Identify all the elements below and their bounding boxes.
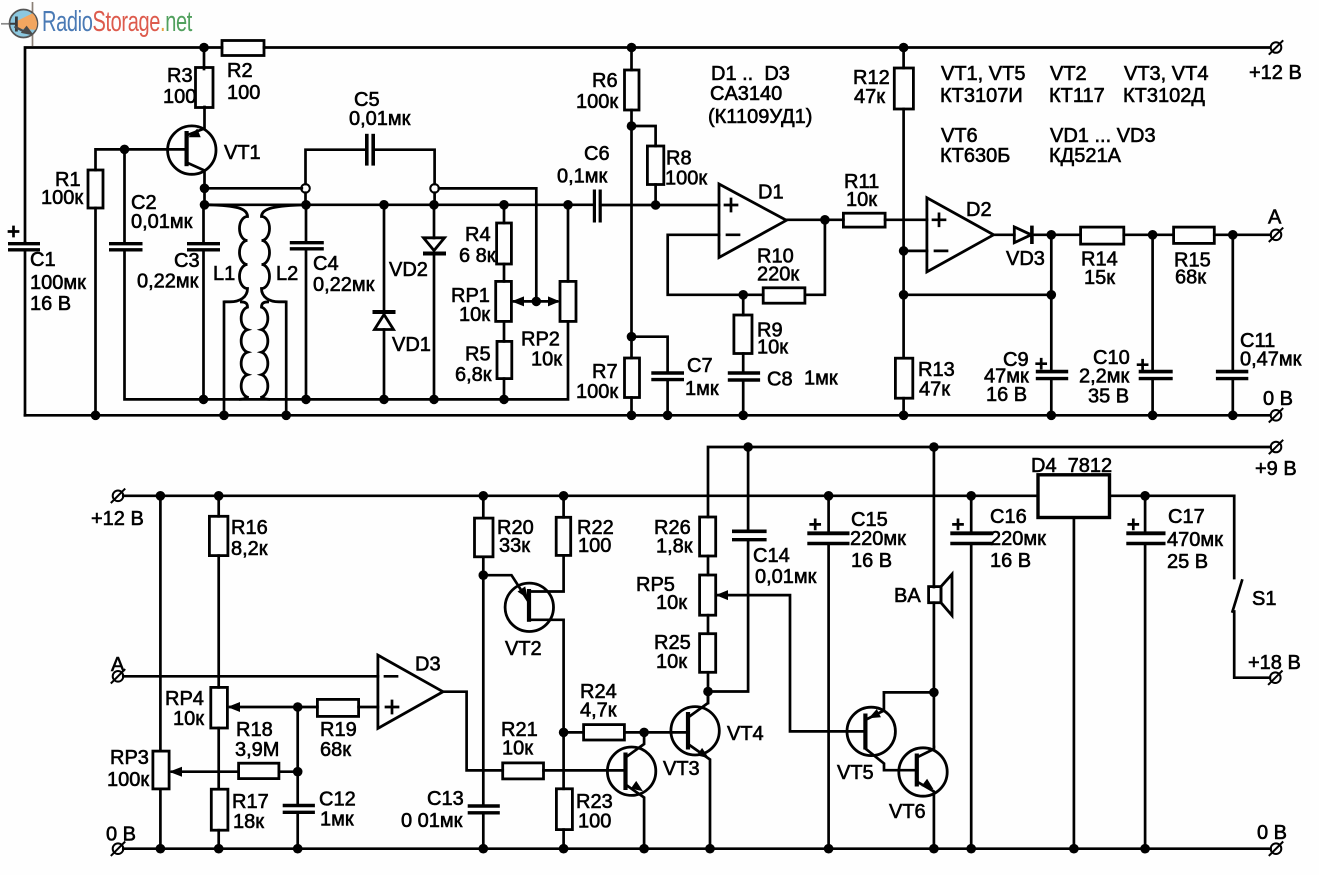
- svg-text:R17: R17: [232, 791, 269, 813]
- terminal A bottom left: [111, 669, 125, 683]
- svg-text:R2: R2: [227, 60, 253, 82]
- wire D2 feedback: [1050, 235, 1053, 295]
- svg-text:100к: 100к: [107, 769, 149, 791]
- wire VT6 collector: [933, 692, 936, 747]
- svg-text:25 В: 25 В: [1167, 551, 1208, 573]
- svg-text:0,01мк: 0,01мк: [131, 211, 193, 233]
- inductor L1 upper winding: [209, 205, 248, 302]
- resistor R24: [564, 731, 584, 734]
- svg-text:0,47мк: 0,47мк: [1240, 349, 1302, 371]
- resistor R25: [707, 615, 710, 634]
- svg-text:6 8к: 6 8к: [459, 245, 496, 267]
- svg-text:D4 7812: D4 7812: [1031, 455, 1112, 477]
- wire D4 ground: [1073, 518, 1076, 849]
- svg-text:C12: C12: [319, 789, 356, 811]
- svg-text:100к: 100к: [576, 91, 618, 113]
- resistor R23: [556, 789, 572, 830]
- wire A line: [123, 675, 378, 678]
- wiper RP3 from R18: [172, 770, 239, 773]
- resistor R8: [632, 126, 656, 146]
- wire RP4 to R17: [217, 728, 220, 789]
- svg-text:R8: R8: [666, 148, 692, 170]
- capacitor C16: [966, 491, 976, 501]
- svg-text:+12 В: +12 В: [1249, 62, 1302, 84]
- terminal +18 V: [1268, 671, 1282, 685]
- wire C1 bottom to rail: [24, 250, 27, 415]
- terminal +9 V: [1269, 440, 1283, 454]
- node R8 branch: [627, 121, 637, 131]
- wire ring right to RP1 wiper: [439, 188, 536, 301]
- svg-text:C3: C3: [174, 250, 200, 272]
- wire D1 output: [786, 218, 843, 221]
- resistor R15: [1174, 227, 1215, 243]
- wire R6 to R7 column: [630, 110, 633, 358]
- node D2 inverting: [899, 246, 909, 256]
- svg-text:L1: L1: [213, 263, 235, 285]
- node R1 bottom rail: [91, 411, 101, 421]
- transistor VT1: [168, 126, 216, 174]
- terminal +12 V bottom left: [111, 489, 125, 503]
- svg-text:C7: C7: [687, 355, 713, 377]
- wire b1 column to R23: [562, 732, 565, 788]
- speaker BA: [929, 442, 939, 452]
- wire R3 bottom to VT1 emitter: [188, 107, 205, 135]
- wire R10 to D1 output: [805, 220, 825, 295]
- svg-text:R4: R4: [465, 224, 491, 246]
- svg-text:16 В: 16 В: [851, 550, 892, 572]
- svg-text:(К1109УД1): (К1109УД1): [708, 106, 812, 128]
- terminal +12 V top right: [1269, 40, 1283, 54]
- svg-text:1мк: 1мк: [685, 378, 719, 400]
- svg-text:4,7к: 4,7к: [580, 700, 617, 722]
- node base/C2 junction: [120, 145, 130, 155]
- svg-text:220мк: 220мк: [990, 528, 1046, 550]
- svg-text:VT6: VT6: [889, 801, 926, 823]
- wire VT1 base line: [96, 149, 187, 170]
- capacitor C4: [305, 205, 308, 241]
- svg-text:35 В: 35 В: [1088, 386, 1129, 408]
- regulator D4 7812: [1038, 475, 1110, 518]
- logo RadioStorage.net: [1, 2, 192, 46]
- node R3/R2 junction: [199, 43, 209, 53]
- svg-text:0 В: 0 В: [1263, 388, 1293, 410]
- svg-text:VT3: VT3: [663, 758, 700, 780]
- svg-text:0 В: 0 В: [1257, 822, 1287, 844]
- svg-text:R7: R7: [592, 361, 618, 383]
- svg-text:КТ117: КТ117: [1049, 85, 1105, 107]
- svg-text:BA: BA: [894, 585, 921, 607]
- node emitter: [200, 184, 210, 194]
- terminal 0 V bottom right: [1269, 842, 1283, 856]
- svg-text:A: A: [111, 654, 125, 676]
- wire D4 output: [1110, 494, 1235, 497]
- svg-text:0,01мк: 0,01мк: [755, 566, 817, 588]
- svg-text:0,1мк: 0,1мк: [557, 166, 608, 188]
- svg-text:2,2мк: 2,2мк: [1079, 366, 1130, 388]
- node C3 top / bottom: [199, 395, 209, 405]
- wire D2 inverting input: [904, 250, 927, 253]
- svg-text:КТ3107И: КТ3107И: [940, 85, 1023, 107]
- svg-text:R5: R5: [465, 344, 491, 366]
- wire R11 to D2: [885, 218, 927, 221]
- op-amp D2: [927, 198, 994, 272]
- svg-text:+12 В: +12 В: [91, 508, 144, 530]
- wire L2 box right: [285, 302, 288, 415]
- resistor R22: [559, 491, 569, 501]
- resistor R5: [503, 321, 506, 341]
- svg-text:D1: D1: [758, 182, 784, 204]
- wire +12V top rail right: [264, 46, 1270, 49]
- svg-text:КД521А: КД521А: [1049, 145, 1122, 167]
- capacitor C15: [824, 491, 834, 501]
- svg-text:RP3: RP3: [110, 747, 149, 769]
- wire C2 bottom / inner bottom line: [125, 250, 569, 400]
- capacitor C1: [24, 241, 27, 244]
- resistor R19: [317, 699, 358, 716]
- svg-text:R18: R18: [236, 719, 273, 741]
- wire R3 top: [203, 48, 206, 70]
- capacitor C17: [1144, 496, 1147, 532]
- svg-text:100к: 100к: [665, 168, 707, 190]
- svg-text:R16: R16: [231, 517, 268, 539]
- resistor R16: [214, 491, 224, 501]
- svg-text:C17: C17: [1168, 506, 1205, 528]
- resistor R10: [763, 288, 805, 303]
- svg-text:RP2: RP2: [521, 329, 560, 351]
- op-amp D3: [378, 655, 443, 728]
- svg-text:C4: C4: [313, 253, 339, 275]
- top section: [8, 40, 1302, 422]
- svg-text:1мк: 1мк: [320, 809, 354, 831]
- svg-text:C13: C13: [427, 788, 464, 810]
- capacitor C7: [632, 337, 668, 372]
- wire R14 to R15: [1124, 233, 1174, 236]
- svg-text:VD1 ... VD3: VD1 ... VD3: [1050, 125, 1156, 147]
- wiper RP5: [718, 595, 865, 731]
- svg-text:VT2: VT2: [1050, 63, 1087, 85]
- node C4 tank top: [301, 200, 311, 210]
- svg-text:100: 100: [163, 86, 196, 108]
- svg-text:16 В: 16 В: [986, 384, 1027, 406]
- node VD3 out: [1047, 230, 1057, 240]
- diode VD3: [994, 233, 1015, 236]
- resistor R6: [627, 43, 637, 53]
- svg-text:RadioStorage.net: RadioStorage.net: [42, 6, 192, 38]
- capacitor C11: [1231, 235, 1234, 370]
- svg-text:18к: 18к: [233, 811, 264, 833]
- node R24 left: [559, 728, 569, 738]
- svg-text:R3: R3: [167, 65, 193, 87]
- svg-text:100: 100: [227, 82, 260, 104]
- svg-text:C14: C14: [753, 545, 790, 567]
- wire VT1 emitter node to rings: [205, 187, 302, 190]
- resistor R4: [499, 200, 509, 210]
- svg-text:C1: C1: [30, 249, 56, 271]
- svg-text:VT3, VT4: VT3, VT4: [1124, 63, 1208, 85]
- wire R19 junction down to R18/C12: [296, 707, 299, 804]
- svg-text:VT2: VT2: [505, 638, 542, 660]
- transistor VT6: [899, 748, 947, 796]
- wire VT5 collector branch: [884, 692, 934, 710]
- inductor L2 upper winding: [262, 205, 306, 302]
- resistor R18: [239, 763, 279, 778]
- svg-text:0,22мк: 0,22мк: [137, 271, 199, 293]
- svg-text:1,8к: 1,8к: [656, 536, 693, 558]
- switch S1: [1233, 496, 1236, 578]
- svg-text:C6: C6: [584, 143, 610, 165]
- svg-text:R6: R6: [592, 70, 618, 92]
- svg-text:8,2к: 8,2к: [231, 538, 268, 560]
- capacitor C5: [306, 150, 367, 184]
- node C7 branch: [627, 332, 637, 342]
- svg-text:D2: D2: [966, 199, 992, 221]
- wire L1 box left: [223, 302, 226, 415]
- svg-text:47к: 47к: [854, 86, 885, 108]
- svg-text:10к: 10к: [459, 304, 490, 326]
- resistor R14: [1081, 227, 1124, 244]
- wire bottom rail of top section: [25, 414, 1270, 417]
- svg-text:VT1, VT5: VT1, VT5: [941, 63, 1025, 85]
- svg-text:100: 100: [578, 535, 611, 557]
- wire R15 to A terminal: [1214, 233, 1270, 236]
- resistor R2: [222, 41, 264, 56]
- svg-text:+18 В: +18 В: [1248, 652, 1301, 674]
- capacitor C2: [123, 149, 126, 242]
- op-amp D1: [719, 184, 786, 258]
- svg-text:15к: 15к: [1084, 267, 1115, 289]
- svg-text:CA3140: CA3140: [710, 83, 782, 105]
- resistor R17: [211, 789, 228, 830]
- svg-text:VT6: VT6: [941, 125, 978, 147]
- svg-text:VT1: VT1: [224, 142, 261, 164]
- terminal A right: [1269, 228, 1283, 242]
- wire 0V bottom rail: [123, 847, 1270, 850]
- svg-text:10к: 10к: [757, 337, 788, 359]
- wiper RP4 to R19 line: [230, 706, 317, 709]
- svg-text:6,8к: 6,8к: [455, 364, 492, 386]
- svg-text:A: A: [1268, 207, 1282, 229]
- svg-text:0 01мк: 0 01мк: [401, 810, 463, 832]
- svg-text:10к: 10к: [656, 651, 687, 673]
- svg-text:КТ630Б: КТ630Б: [940, 145, 1010, 167]
- svg-text:C8: C8: [767, 369, 793, 391]
- potentiometer RP3: [156, 491, 166, 501]
- diode VD2: [433, 205, 436, 238]
- node R9 top: [738, 290, 748, 300]
- wire C6 to D1: [600, 204, 719, 207]
- connector ring right: [430, 184, 439, 193]
- capacitor C3: [202, 205, 205, 242]
- svg-text:D3: D3: [415, 654, 441, 676]
- terminal 0 V bottom left: [111, 842, 125, 856]
- svg-text:1мк: 1мк: [804, 368, 838, 390]
- svg-text:68к: 68к: [320, 739, 351, 761]
- transistor VT3: [607, 747, 655, 795]
- resistor R9: [742, 295, 745, 315]
- svg-text:RP4: RP4: [165, 688, 204, 710]
- svg-text:10к: 10к: [502, 738, 533, 760]
- wire tank top line: [203, 188, 206, 205]
- transistor VT2: [483, 575, 527, 600]
- wire +12V bottom rail: [123, 494, 1038, 497]
- svg-text:VD2: VD2: [389, 259, 428, 281]
- svg-text:68к: 68к: [1175, 267, 1206, 289]
- transistor VT5: [847, 707, 895, 755]
- bottom section: [91, 440, 1301, 856]
- resistor R21: [503, 763, 544, 779]
- svg-text:10к: 10к: [656, 592, 687, 614]
- transistor VT4: [671, 707, 719, 755]
- svg-text:S1: S1: [1252, 588, 1276, 610]
- wire +12V top rail left: [25, 48, 222, 243]
- potentiometer RP5: [707, 556, 710, 575]
- wire R1 bottom: [94, 208, 97, 415]
- svg-text:C16: C16: [990, 506, 1027, 528]
- capacitor C8: [742, 354, 745, 373]
- capacitor C9: [1050, 295, 1053, 370]
- diode VD1: [383, 205, 386, 311]
- svg-text:16 В: 16 В: [30, 293, 71, 315]
- resistor R12: [899, 43, 909, 53]
- svg-text:470мк: 470мк: [1167, 529, 1223, 551]
- resistor R7: [625, 358, 640, 398]
- wire +9V rail: [708, 447, 1271, 517]
- wire R20 to C13 column: [482, 557, 485, 805]
- resistor R11: [843, 213, 885, 227]
- svg-text:0 В: 0 В: [106, 824, 136, 846]
- svg-text:VT4: VT4: [727, 723, 764, 745]
- potentiometer RP1: [503, 264, 506, 281]
- terminal 0 V top-section right: [1269, 408, 1283, 422]
- svg-text:0,01мк: 0,01мк: [349, 108, 411, 130]
- wire R12-R13 column: [902, 109, 905, 358]
- potentiometer RP4: [211, 687, 228, 728]
- svg-text:220к: 220к: [757, 264, 799, 286]
- capacitor C12: [283, 804, 315, 807]
- svg-text:10к: 10к: [173, 708, 204, 730]
- capacitor C14: [743, 442, 753, 452]
- svg-text:VT5: VT5: [837, 762, 874, 784]
- resistor R1: [88, 170, 103, 208]
- svg-text:+9 В: +9 В: [1255, 458, 1297, 480]
- connector ring left: [301, 184, 310, 193]
- wire D1 inverting input / feedback: [668, 235, 764, 295]
- svg-text:47к: 47к: [919, 379, 950, 401]
- node feedback: [899, 290, 909, 300]
- capacitor C10: [1151, 235, 1154, 370]
- svg-text:3,9М: 3,9М: [235, 739, 279, 761]
- svg-text:0,22мк: 0,22мк: [313, 274, 375, 296]
- svg-text:R19: R19: [320, 719, 357, 741]
- resistor R26: [700, 517, 716, 556]
- svg-text:КТ3102Д: КТ3102Д: [1123, 85, 1205, 107]
- svg-text:100: 100: [578, 811, 611, 833]
- svg-text:100к: 100к: [576, 381, 618, 403]
- svg-text:100мк: 100мк: [30, 272, 86, 294]
- potentiometer RP2: [563, 200, 573, 210]
- node tank top: [200, 200, 210, 210]
- svg-text:16 В: 16 В: [990, 550, 1031, 572]
- svg-text:10к: 10к: [531, 349, 562, 371]
- svg-text:VD3: VD3: [1006, 248, 1045, 270]
- resistor R13: [895, 358, 912, 398]
- resistor R20: [479, 491, 489, 501]
- inductor L2 lower winding: [262, 302, 271, 400]
- svg-text:220мк: 220мк: [850, 528, 906, 550]
- svg-text:100к: 100к: [41, 187, 83, 209]
- svg-text:VD1: VD1: [392, 334, 431, 356]
- wire R16 to RP4: [217, 556, 220, 688]
- svg-text:10к: 10к: [846, 189, 877, 211]
- capacitor C6: [593, 190, 596, 223]
- capacitor C13: [468, 804, 500, 807]
- svg-text:33к: 33к: [499, 535, 530, 557]
- inductor L1 lower winding: [239, 302, 248, 400]
- svg-text:L2: L2: [276, 263, 298, 285]
- wire R21 to VT3 base: [544, 769, 626, 772]
- svg-text:D1 .. D3: D1 .. D3: [711, 63, 790, 85]
- wiper RP1-RP2: [514, 300, 557, 303]
- resistor R3: [196, 68, 214, 108]
- wire D3 output: [443, 692, 503, 771]
